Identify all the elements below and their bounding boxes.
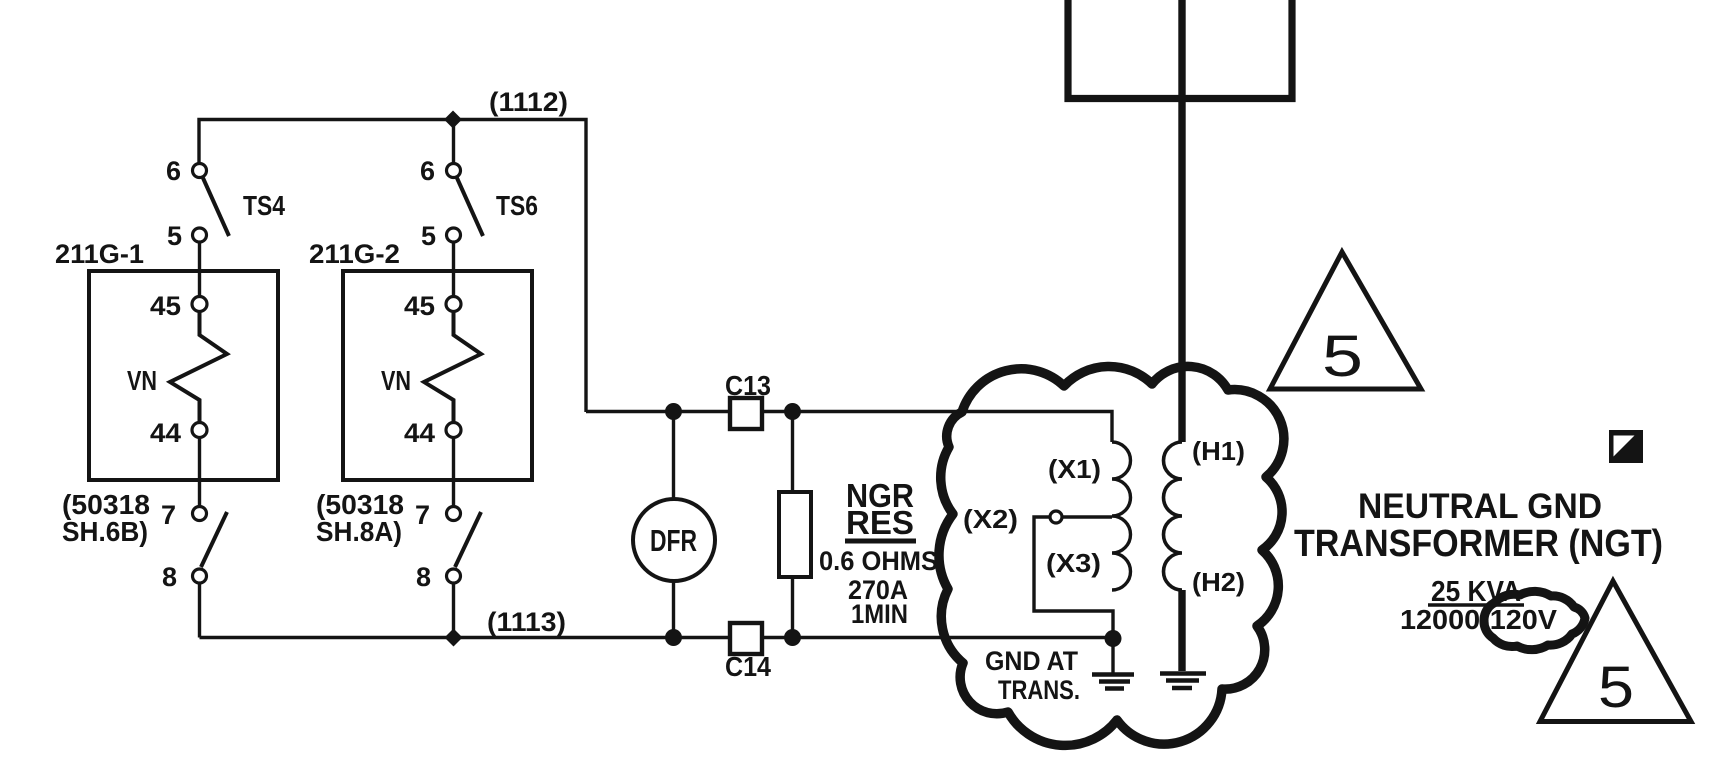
- svg-text:(1112): (1112): [489, 87, 568, 117]
- wire (1113) bottom horizontal: [200, 636, 1114, 639]
- svg-text:5: 5: [1322, 324, 1363, 389]
- svg-text:8: 8: [416, 562, 431, 592]
- TS6 blade: [457, 178, 483, 236]
- note marker square: [1609, 430, 1643, 463]
- revision triangle 5 upper: [1270, 252, 1421, 389]
- TS6 lower contact 8: [447, 569, 461, 583]
- relay box 211G-2: [343, 271, 532, 480]
- transformer block top: [1068, 0, 1292, 99]
- svg-text:45: 45: [404, 291, 435, 321]
- wire (1112) top horizontal: [199, 120, 586, 413]
- svg-text:7: 7: [161, 500, 176, 530]
- svg-text:TRANSFORMER (NGT): TRANSFORMER (NGT): [1294, 523, 1663, 565]
- test switch TS6 contact 6: [447, 164, 461, 178]
- svg-text:45: 45: [150, 291, 181, 321]
- svg-text:6: 6: [420, 156, 435, 186]
- svg-text:6: 6: [166, 156, 181, 186]
- ground symbol left: [1092, 675, 1134, 689]
- 211G-1 contact 45: [192, 297, 207, 312]
- wire DFR top: [672, 412, 675, 500]
- NGT H winding: [1164, 442, 1182, 590]
- ground symbol right: [1160, 674, 1206, 689]
- svg-text:(X1): (X1): [1048, 454, 1101, 484]
- svg-text:(H2): (H2): [1192, 567, 1245, 597]
- H line to ground: [1178, 590, 1185, 671]
- TS4 lower contact 7: [193, 507, 207, 521]
- svg-text:C14: C14: [725, 651, 771, 682]
- svg-text:RES: RES: [846, 504, 914, 541]
- svg-text:C13: C13: [725, 370, 771, 401]
- NGT X winding: [1112, 442, 1131, 590]
- X2 tap wire to ground junction: [1034, 517, 1113, 638]
- svg-text:(1113): (1113): [487, 607, 566, 637]
- svg-text:5: 5: [167, 221, 182, 251]
- wire 8 down to (1113): [452, 583, 455, 638]
- relay box 211G-1: [89, 271, 278, 480]
- svg-text:TS4: TS4: [243, 190, 285, 221]
- wire 44 to 7: [198, 438, 201, 507]
- node junction TS6/(1113): [445, 629, 463, 647]
- wire 44 to 7: [452, 438, 455, 507]
- wire NGR top: [791, 412, 794, 493]
- svg-text:5: 5: [1598, 655, 1634, 720]
- TS6 lower blade: [455, 512, 481, 567]
- 211G-1 contact 44: [192, 423, 207, 438]
- RES underline: [845, 539, 916, 544]
- TS4 blade: [203, 178, 229, 236]
- TS4 lower blade: [201, 512, 227, 567]
- wire TS4 5 to 45: [198, 242, 201, 297]
- svg-text:7: 7: [415, 500, 430, 530]
- wire TS6 column from (1112): [452, 120, 455, 164]
- svg-text:(H1): (H1): [1192, 436, 1245, 466]
- svg-text:GND AT: GND AT: [985, 646, 1078, 676]
- test switch TS4 contact 6: [193, 164, 207, 178]
- svg-text:TRANS.: TRANS.: [998, 675, 1080, 705]
- svg-text:8: 8: [162, 562, 177, 592]
- wire C13 run: [586, 412, 1112, 443]
- resistor VN (211G-2): [424, 312, 481, 423]
- svg-text:VN: VN: [381, 365, 411, 396]
- DFR relay circle: [633, 499, 715, 581]
- svg-text:(X2): (X2): [963, 504, 1018, 534]
- TS4 lower contact 8: [193, 569, 207, 583]
- svg-text:NEUTRAL GND: NEUTRAL GND: [1358, 487, 1602, 526]
- revision triangle 5 lower: [1540, 581, 1691, 722]
- wire TS6 5 to 45: [452, 242, 455, 297]
- node NGR top: [784, 403, 801, 420]
- svg-text:211G-2: 211G-2: [309, 239, 400, 269]
- wire DFR bottom: [672, 581, 675, 638]
- terminal C14: [730, 623, 762, 654]
- wire 8 down to (1113): [198, 583, 201, 638]
- svg-text:TS6: TS6: [496, 190, 538, 221]
- node DFR bottom: [665, 629, 682, 646]
- TS6 lower contact 7: [447, 507, 461, 521]
- TS6 contact 5: [447, 228, 461, 242]
- svg-text:44: 44: [150, 418, 181, 448]
- svg-text:44: 44: [404, 418, 435, 448]
- resistor VN (211G-1): [170, 312, 227, 423]
- svg-text:5: 5: [421, 221, 436, 251]
- svg-text:VN: VN: [127, 365, 157, 396]
- X2 tap wire to coil: [1062, 515, 1112, 518]
- svg-text:1MIN: 1MIN: [851, 599, 908, 629]
- wire junction to ground: [1111, 639, 1114, 674]
- 25 KVA underline: [1428, 603, 1524, 607]
- terminal C13: [730, 398, 762, 429]
- wire NGR bottom: [791, 577, 794, 638]
- H line from transformer: [1178, 0, 1185, 442]
- svg-text:12000-120V: 12000-120V: [1400, 604, 1557, 635]
- 211G-2 contact 45: [446, 297, 461, 312]
- svg-text:211G-1: 211G-1: [55, 239, 144, 269]
- node NGR bottom: [784, 629, 801, 646]
- svg-text:DFR: DFR: [650, 523, 697, 558]
- svg-text:(X3): (X3): [1046, 548, 1101, 578]
- NGT cloud: [939, 366, 1284, 745]
- node gnd junction: [1105, 630, 1122, 647]
- node junction (1112)/TS6: [444, 111, 462, 129]
- svg-text:0.6 OHMS: 0.6 OHMS: [819, 546, 938, 576]
- X2 tap terminal: [1050, 511, 1062, 523]
- TS4 contact 5: [193, 228, 207, 242]
- revision cloud around 120V: [1484, 591, 1585, 649]
- resistor NGR RES: [779, 492, 811, 577]
- svg-text:SH.8A): SH.8A): [316, 516, 402, 547]
- svg-text:SH.6B): SH.6B): [62, 516, 148, 547]
- 211G-2 contact 44: [446, 423, 461, 438]
- node DFR top: [665, 403, 682, 420]
